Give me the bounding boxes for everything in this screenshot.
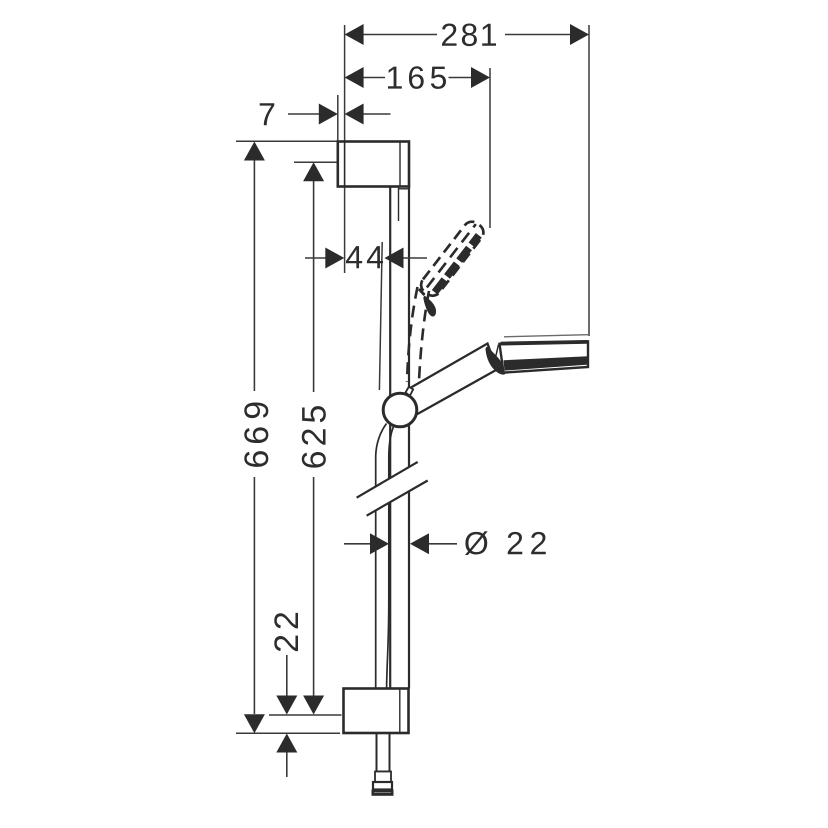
dim 44 arrow left [325, 248, 344, 269]
extension line hole top (625 upper ref) [294, 161, 338, 163]
dim 165 line left segment [363, 77, 385, 79]
dim 44 arrow right [385, 248, 404, 269]
hose below bracket right edge [389, 733, 391, 772]
hose collar [375, 772, 391, 783]
hose upper right edge [387, 426, 394, 689]
dim 281 line right segment [505, 34, 572, 36]
stowed spray neck tick [419, 289, 425, 295]
dim 44 text [346, 246, 383, 268]
dim 165 text [388, 66, 446, 89]
hand shower head (solid) [500, 341, 589, 372]
head joint line [496, 345, 499, 358]
stowed spray dark band [435, 235, 479, 292]
dim 625 line upper [313, 181, 315, 392]
dim 625 arrow bottom [303, 696, 324, 715]
dim 165 arrow right [471, 67, 490, 88]
dim dia22 text [465, 531, 546, 555]
dim 22 text [274, 613, 298, 651]
slider nub [406, 387, 414, 396]
dim dia22 arrow left [370, 533, 389, 554]
stowed spray head dashed outline [418, 218, 488, 299]
break line upper [357, 462, 418, 498]
extension line right of 165 (stowed spray top) [489, 68, 491, 228]
head ghost top profile [504, 335, 588, 337]
wire rail left edge [389, 187, 391, 689]
break line lower [367, 481, 428, 516]
dim dia22 tail right [428, 543, 457, 545]
hose nut upper [373, 782, 392, 790]
head top thick edge [501, 342, 588, 344]
dim 165 line right segment [449, 77, 473, 79]
dim 7 text [260, 103, 275, 125]
extension line wall top (left ref for 281/165/7) [344, 25, 346, 141]
rail top cap shelf [399, 188, 410, 190]
dim 44 tail right [402, 257, 427, 259]
hose collar top line [375, 771, 391, 773]
stowed spray right handle dashed line [419, 291, 429, 381]
dim 281 text [442, 23, 496, 46]
dim 22 lower tail [286, 753, 288, 778]
head spray face dark band [504, 356, 589, 370]
stowed spray neck blob [423, 296, 436, 317]
stowed spray centre dashed line [427, 224, 476, 287]
hose nut lower highlight [374, 791, 391, 793]
dim 669 arrow bottom [244, 714, 265, 733]
dim 625 line lower [313, 477, 315, 696]
dim 7 arrow left [319, 104, 338, 125]
extension line wall below bracket (left ref for 44) [344, 187, 346, 273]
extension line right of 44 (slider face) [379, 242, 382, 390]
dim 7 tail left [288, 113, 320, 115]
dim 165 arrow left [345, 67, 364, 88]
dim 281 arrow right [570, 24, 589, 45]
wire rail right edge [408, 187, 410, 689]
neck dark blob [486, 347, 506, 375]
extension line bar bottom (669 lower ref) [236, 732, 340, 734]
extension line wall-plate face (left ref of 7) [337, 95, 339, 141]
dim dia22 arrow right [410, 533, 429, 554]
dim 625 arrow top [303, 162, 324, 181]
dim 281 line left segment [363, 34, 437, 36]
dim 281 arrow left [345, 24, 364, 45]
dim 669 text [244, 402, 268, 466]
dim 22 arrow upper [276, 696, 297, 715]
hose below bracket left edge [376, 733, 378, 772]
dim 22 line [286, 655, 288, 696]
wall bracket top [338, 142, 409, 187]
rail top cap line [398, 187, 400, 222]
dim 625 text [302, 406, 326, 468]
dim 22 arrow lower [276, 734, 297, 753]
slider pivot circle [383, 393, 417, 427]
extension line right of 281 (hand shower far edge) [588, 25, 590, 336]
break gap mask [357, 462, 428, 516]
dim 7 arrow right [345, 104, 364, 125]
dim 669 line lower [253, 477, 255, 714]
stowed spray left dashed line [407, 287, 418, 382]
dim 669 arrow top [244, 142, 265, 161]
dim 44 tail left [305, 257, 327, 259]
hose upper left edge [376, 424, 387, 689]
extension line hole bottom (625/22 ref) [269, 714, 342, 716]
dim 7 tail right [363, 113, 391, 115]
hose nut lower dark [372, 790, 394, 796]
dim dia22 tail left [344, 543, 371, 545]
wall bracket bottom [344, 689, 409, 734]
dim 669 line upper [253, 161, 255, 392]
hand shower handle (solid) [408, 344, 498, 417]
extension line bar top (669 upper ref) [236, 140, 338, 142]
